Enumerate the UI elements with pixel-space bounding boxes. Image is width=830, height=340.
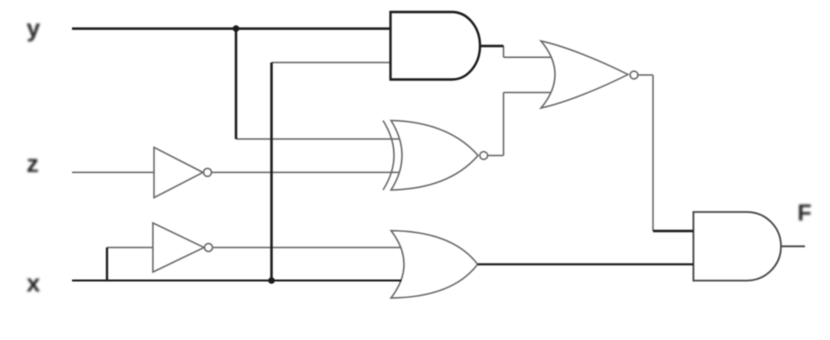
node junction dot on y line [233,25,240,32]
wire x input line [72,279,402,281]
wire vertical up to NOR lower input [503,93,505,156]
wire XNOR output [488,155,504,157]
wire x tap vertical up [106,248,108,281]
wire vertical down to AND2 [652,75,654,231]
svg-text:F: F [798,200,812,226]
wire U3 output stub [480,45,504,47]
wire OR output to AND2 lower input [478,263,694,265]
XNOR gate U4 body [391,121,478,191]
wire into NOR upper input [504,56,552,58]
wire x branch to AND1 lower input [272,62,391,64]
NOR gate U5 bubble [630,71,638,79]
wire x tap to inverter U2 input [107,247,153,249]
AND gate U3 body [391,12,481,80]
wire z input line [72,171,154,173]
wire y input line [72,27,391,30]
wire jog down to NOR upper input [503,46,505,57]
svg-text:z: z [27,151,39,178]
svg-text:x: x [27,270,41,297]
wire vertical from x junction up to AND1 [270,63,273,281]
inverter U2 bubble [205,244,213,252]
NOR gate U5 body [541,41,628,108]
inverter U1 (z) triangle [154,147,203,197]
XNOR gate U4 bubble [480,152,488,160]
wire F output stub [781,245,805,247]
wire y branch to XNOR upper input [236,138,400,140]
wire U2 output to OR input [213,247,402,249]
inverter U1 bubble [204,168,212,176]
node junction dot on x line [268,277,275,284]
wire NOR output [638,74,653,76]
wire into AND2 upper input [653,230,693,232]
svg-text:y: y [27,16,41,43]
XNOR gate U4 outer arc [383,121,394,191]
wire vertical from y junction down [235,29,238,139]
OR gate U6 body [391,231,478,298]
AND gate U7 body [693,212,781,281]
wire into NOR lower input [504,92,552,94]
wire U1 output to XNOR lower input [212,171,401,173]
inverter U2 (x) triangle [153,223,204,272]
